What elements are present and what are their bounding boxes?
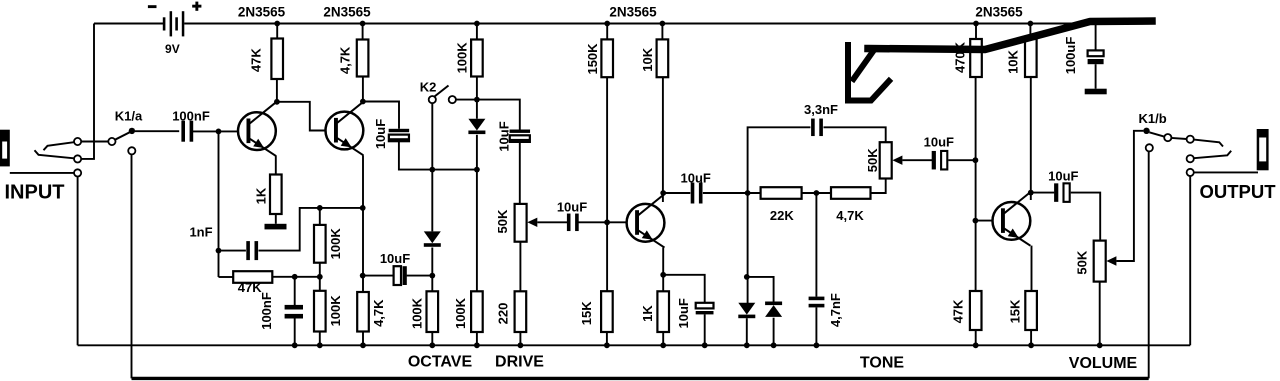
- node 4,7nF tap: [814, 190, 820, 196]
- capacitor C 4,7nF: [809, 297, 825, 308]
- label 9V: [165, 42, 180, 56]
- node octave node: [474, 97, 480, 103]
- capacitor C6 10uF: [691, 183, 703, 204]
- wire R17 to Q4 base node: [975, 77, 977, 221]
- node Q3 base junction: [604, 219, 610, 225]
- wire 4,7K to tone pot bottom: [871, 179, 886, 194]
- label C9 100nF: [259, 292, 274, 330]
- label P1 50K: [495, 209, 510, 233]
- wire 100nF top lead: [294, 277, 296, 305]
- transistor Q3 2N3565: [627, 194, 666, 248]
- wire input sleeve to contact: [10, 172, 74, 174]
- wire rail to R2: [362, 24, 364, 40]
- wire bypass rail: [132, 377, 1149, 380]
- svg-text:K1/a: K1/a: [115, 109, 143, 124]
- wire 3,3nF right to tone pot top: [824, 127, 886, 142]
- switch K1/a bypass throw contact: [128, 147, 135, 154]
- switch K2 arm: [435, 86, 449, 97]
- label 2N3565 Q2: [323, 5, 371, 20]
- wire R11 to Q3 base node: [606, 77, 608, 222]
- resistor R 4,7K tone: [831, 187, 871, 199]
- label C3 10uF: [380, 251, 410, 266]
- svg-text:10K: 10K: [1005, 49, 1020, 73]
- potentiometer P3 volume 50K: [1094, 241, 1106, 282]
- capacitor C5 10uF: [567, 214, 579, 232]
- wire rail to R12: [661, 24, 663, 40]
- label K2: [420, 80, 437, 95]
- transistor Q1 2N3565: [238, 102, 277, 156]
- svg-text:100nF: 100nF: [172, 108, 210, 123]
- label battery plus: [192, 2, 201, 11]
- switch K1/a throw contact: [108, 138, 115, 145]
- node tone input node: [745, 190, 751, 196]
- ground under R3: [265, 224, 287, 230]
- resistor R4 100K: [314, 225, 326, 263]
- diode D3: [738, 303, 755, 318]
- resistor R16 1K: [657, 291, 669, 332]
- scribble annotation mark: [848, 21, 1152, 101]
- label 1nF: [189, 224, 212, 239]
- label C4 10uF: [496, 121, 511, 151]
- resistor R17 470K: [970, 39, 982, 77]
- label R17 470K: [952, 41, 967, 73]
- wire output sleeve to ground rail: [1189, 176, 1191, 345]
- switch K1/b throw contact: [1164, 134, 1171, 141]
- node rail junction R10: [474, 21, 480, 27]
- label R11 150K: [585, 43, 600, 75]
- svg-text:3,3nF: 3,3nF: [804, 102, 838, 117]
- node Q2 collector: [360, 99, 366, 105]
- node rail junction R2: [360, 21, 366, 27]
- label 4,7K tone: [836, 208, 864, 223]
- node Q4 base junction: [973, 218, 979, 224]
- wire C6 left lead: [663, 192, 690, 194]
- wire 3,3nF branch up: [748, 127, 811, 193]
- ground under C11: [1085, 89, 1107, 95]
- node diode split: [744, 274, 750, 280]
- wire rail to R10: [476, 24, 478, 40]
- node C3 right junction: [429, 273, 435, 279]
- label P2 50K: [865, 148, 880, 172]
- wire rail to R1: [276, 24, 278, 39]
- resistor R18 10K: [1025, 39, 1037, 77]
- label 2N3565 Q4: [975, 5, 1023, 20]
- svg-text:10uF: 10uF: [681, 170, 711, 185]
- wire output ring contact arm: [1194, 151, 1231, 158]
- wire left drop from top rail to input ring contact: [81, 24, 94, 159]
- wire R3 to ground: [275, 214, 277, 224]
- wire top rail left segment (battery minus to left drop): [94, 23, 163, 25]
- label C10 10uF: [676, 298, 691, 328]
- wire K2 to D1 node: [456, 99, 477, 101]
- svg-text:15K: 15K: [579, 301, 594, 325]
- svg-text:10uF: 10uF: [1048, 169, 1078, 184]
- diode D4: [765, 302, 782, 317]
- svg-text:100K: 100K: [455, 42, 470, 74]
- wire R1 to collector node: [276, 79, 278, 102]
- svg-text:OCTAVE: OCTAVE: [408, 354, 473, 371]
- capacitor C9 100nF: [285, 305, 303, 319]
- node output sleeve contact: [1187, 169, 1194, 176]
- resistor R3 1K: [270, 175, 282, 215]
- wire C7 to Q4 base line: [948, 159, 975, 161]
- node Q3 collector C6 tap: [660, 190, 666, 196]
- label R12 10K: [640, 47, 655, 71]
- label R2 4,7K: [338, 46, 353, 74]
- label R4 100K: [328, 228, 343, 260]
- wire ground rail: [78, 344, 1191, 346]
- capacitor C8 10uF: [1054, 183, 1070, 202]
- capacitor C 3,3nF: [811, 119, 823, 137]
- wire R13 to ground rail: [975, 330, 977, 345]
- svg-text:2N3565: 2N3565: [323, 5, 371, 20]
- diode D1: [468, 119, 485, 134]
- wire P2 wiper arrow: [892, 156, 934, 165]
- wire P1 wiper arrow: [527, 218, 567, 227]
- wire P1 to R9: [519, 242, 521, 292]
- svg-text:150K: 150K: [585, 43, 600, 75]
- capacitor C4 10uF: [510, 130, 531, 142]
- wire Q3 emitter down: [662, 248, 664, 292]
- node 1nF tap: [216, 248, 222, 254]
- wire R8 to ground rail: [476, 332, 478, 345]
- label R8 100K: [453, 297, 468, 329]
- wire diode split to D4: [747, 277, 774, 302]
- svg-text:10uF: 10uF: [380, 251, 410, 266]
- label C11 100uF: [1063, 37, 1078, 75]
- svg-text:47K: 47K: [951, 299, 966, 323]
- svg-text:100K: 100K: [453, 297, 468, 329]
- label R10 100K: [455, 42, 470, 74]
- label K1/b: [1139, 111, 1167, 126]
- node C3 left junction: [360, 273, 366, 279]
- capacitor C 1nF: [246, 241, 258, 260]
- label P3 50K: [1075, 250, 1090, 274]
- node input ring contact: [74, 155, 81, 162]
- svg-text:10uF: 10uF: [924, 135, 954, 150]
- switch K1/b common: [1143, 128, 1149, 134]
- label 2N3565 Q3: [609, 5, 657, 20]
- wire K2a down to D2: [431, 103, 433, 231]
- label TONE: [860, 355, 904, 372]
- svg-text:1K: 1K: [253, 187, 268, 204]
- wire Q2 emitter down: [362, 155, 364, 292]
- wire 4,7nF branch: [815, 193, 817, 297]
- node rail junction R12: [660, 21, 666, 27]
- wire D2 to C3 node: [431, 248, 433, 276]
- switch K1/b arm: [1149, 132, 1164, 136]
- node input sleeve contact: [74, 169, 81, 176]
- wire top rail main segment (battery plus to 100uF): [184, 23, 1095, 25]
- node rail junction R17: [973, 21, 979, 27]
- node D2 line crossing: [429, 167, 435, 173]
- label R14 15K: [1008, 299, 1023, 323]
- wire D2 node to R7: [431, 276, 433, 292]
- svg-text:TONE: TONE: [860, 355, 904, 372]
- wire R2 to Q2 collector node: [362, 77, 364, 102]
- switch K1/b bypass throw contact: [1146, 144, 1153, 151]
- svg-text:DRIVE: DRIVE: [495, 354, 544, 371]
- node input tip contact: [74, 138, 81, 145]
- label R7 100K: [410, 297, 425, 329]
- resistor R12 10K: [657, 39, 669, 77]
- wire R4 to R5: [319, 263, 321, 291]
- wire emitter junction to C10: [663, 275, 705, 303]
- label C8 10uF: [1048, 169, 1078, 184]
- wire Q1 base down to feedback: [218, 131, 220, 277]
- svg-text:50K: 50K: [1075, 250, 1090, 274]
- svg-text:OUTPUT: OUTPUT: [1199, 181, 1276, 202]
- label C1 100nF: [172, 108, 210, 123]
- resistor R8 100K: [471, 291, 483, 332]
- svg-text:2N3565: 2N3565: [975, 5, 1023, 20]
- wire R9 to ground rail: [519, 332, 521, 345]
- label C6 10uF: [681, 170, 711, 185]
- svg-text:K2: K2: [420, 80, 437, 95]
- svg-text:15K: 15K: [1008, 299, 1023, 323]
- wire input sleeve down to ground rail: [77, 177, 79, 346]
- wire rail to R11: [606, 24, 608, 40]
- switch K1/a common: [129, 128, 135, 134]
- svg-text:100K: 100K: [410, 297, 425, 329]
- wire feedback 47K left lead: [219, 276, 234, 278]
- switch K2 contact b: [449, 96, 456, 103]
- label battery minus: [148, 5, 157, 8]
- svg-text:10uF: 10uF: [373, 119, 388, 149]
- label R9 220: [495, 303, 510, 325]
- svg-text:K1/b: K1/b: [1139, 111, 1167, 126]
- wire K1/b bypass riser: [1148, 151, 1150, 378]
- label R1 47K: [248, 48, 263, 72]
- svg-text:4,7K: 4,7K: [836, 208, 864, 223]
- svg-text:4,7nF: 4,7nF: [828, 293, 843, 327]
- node 100nF tap: [292, 274, 298, 280]
- node R4 top junction: [317, 205, 323, 211]
- wire K1/a bypass drop: [131, 154, 133, 378]
- svg-text:4,7K: 4,7K: [371, 299, 386, 327]
- wire rail to R18: [1029, 24, 1031, 40]
- wire K1/b throw to jack tip: [1171, 138, 1186, 139]
- svg-text:9V: 9V: [165, 42, 180, 56]
- diode D2: [424, 231, 441, 246]
- svg-text:2N3565: 2N3565: [609, 5, 657, 20]
- node rail junction R1: [274, 21, 280, 27]
- wire Q4 emitter down: [1031, 246, 1033, 291]
- input jack J1: [0, 130, 10, 167]
- wire C4 to drive pot: [519, 143, 521, 204]
- wire input ring contact arm: [35, 150, 75, 158]
- node rail junction R18: [1028, 21, 1034, 27]
- resistor R2 4,7K: [357, 40, 369, 77]
- wire input tip contact arm: [44, 142, 75, 150]
- capacitor C1 100nF: [181, 121, 193, 142]
- svg-text:10uF: 10uF: [676, 298, 691, 328]
- potentiometer P2 tone 50K: [880, 142, 892, 178]
- label C2 10uF: [373, 119, 388, 149]
- wire D3 to ground rail: [746, 318, 748, 345]
- node Q3 emitter junction: [660, 272, 666, 278]
- wire 47K right to divider: [272, 276, 320, 278]
- wire P3 wiper to K1/b: [1106, 131, 1143, 266]
- label 22K: [770, 208, 794, 223]
- resistor R feedback 47K: [233, 271, 272, 283]
- resistor R5 100K: [314, 291, 326, 332]
- capacitor C7 10uF: [932, 151, 948, 170]
- wire 100nF to ground rail: [294, 318, 296, 346]
- wire R5 to ground rail: [319, 332, 321, 346]
- wire C3 leads: [363, 275, 433, 277]
- label C7 10uF: [924, 135, 954, 150]
- resistor R6 4,7K: [357, 292, 369, 332]
- battery BT1 9V: [163, 11, 185, 36]
- wire 1nF left lead: [219, 250, 246, 252]
- capacitor C11 100uF: [1088, 50, 1104, 64]
- transistor Q2 2N3565: [326, 101, 365, 155]
- svg-text:2N3565: 2N3565: [238, 5, 286, 20]
- wire D1 line to R8: [476, 170, 478, 292]
- svg-text:22K: 22K: [770, 208, 794, 223]
- label feedback 47K: [238, 280, 262, 295]
- wire 22K to 4,7K: [802, 192, 831, 194]
- node Q1 base junction: [216, 129, 222, 135]
- wire R6 to ground rail: [362, 332, 364, 346]
- svg-text:100K: 100K: [328, 228, 343, 260]
- node ground junctions: [292, 342, 1103, 348]
- svg-text:220: 220: [495, 303, 510, 325]
- wire C1 to Q1 base: [193, 130, 238, 132]
- wire D1 to octave line: [476, 135, 478, 170]
- wire 4,7nF to ground rail: [815, 307, 817, 345]
- node R4 R5 junction: [317, 274, 323, 280]
- svg-text:10uF: 10uF: [496, 121, 511, 151]
- wire C8 to volume pot: [1071, 193, 1101, 241]
- label K1/a: [115, 109, 143, 124]
- wire C11 to ground: [1095, 64, 1097, 89]
- wire R14 to ground rail: [1030, 330, 1032, 345]
- wire R12 to Q3 collector: [662, 77, 664, 202]
- wire C6 to tone network: [703, 192, 761, 194]
- node D1 line end: [474, 167, 480, 173]
- wire C5 to Q3 base: [579, 221, 627, 223]
- label OUTPUT: [1199, 181, 1276, 202]
- node C7 junction: [973, 157, 979, 163]
- label R18 10K: [1005, 49, 1020, 73]
- svg-text:100K: 100K: [328, 295, 343, 327]
- svg-text:50K: 50K: [865, 148, 880, 172]
- resistor R1 47K: [271, 39, 283, 80]
- wire R18 to Q4 collector: [1030, 77, 1032, 200]
- resistor R15 15K: [601, 291, 613, 332]
- wire Q3 base node to R15: [606, 222, 608, 291]
- label R5 100K: [328, 295, 343, 327]
- label VOLUME: [1069, 355, 1138, 372]
- wire Q4 base node to R13: [975, 221, 977, 291]
- wire 1nF right to emitter feedback riser: [259, 208, 363, 251]
- wire diode branch down: [747, 193, 749, 304]
- wire Q1 emitter to R3: [275, 155, 277, 174]
- label R15 15K: [579, 301, 594, 325]
- wire C8 left lead: [1031, 192, 1055, 194]
- resistor R11 150K: [601, 39, 613, 77]
- resistor R9 220: [515, 291, 527, 332]
- label 3,3nF: [804, 102, 838, 117]
- potentiometer P1 drive 50K: [515, 204, 527, 242]
- label R6 4,7K: [371, 299, 386, 327]
- wire R7 to ground rail: [431, 332, 433, 345]
- svg-text:VOLUME: VOLUME: [1069, 355, 1138, 372]
- wire C2 bottom to octave line: [399, 142, 477, 170]
- transistor Q4 2N3565: [993, 192, 1032, 246]
- wire D4 to ground rail: [773, 318, 775, 346]
- resistor R7 100K: [427, 291, 439, 332]
- svg-text:10K: 10K: [640, 47, 655, 71]
- label R16 1K: [640, 305, 655, 322]
- resistor R 22K: [761, 187, 802, 199]
- label OCTAVE: [408, 354, 473, 371]
- svg-text:4,7K: 4,7K: [338, 46, 353, 74]
- wire input tip contact to switch throw: [81, 141, 108, 143]
- svg-text:100nF: 100nF: [259, 292, 274, 330]
- wire C10 to ground rail: [704, 314, 706, 345]
- svg-text:10uF: 10uF: [557, 200, 587, 215]
- node output tip contact: [1187, 136, 1194, 143]
- resistor R10 100K: [471, 40, 483, 77]
- node Q4 collector C8 tap: [1028, 190, 1034, 196]
- wire rail to C11: [1095, 24, 1097, 51]
- capacitor C3 10uF: [394, 266, 407, 285]
- node Q2 emitter R4 junction: [360, 205, 366, 211]
- switch K2 contact a: [429, 96, 436, 103]
- svg-text:INPUT: INPUT: [5, 182, 65, 204]
- svg-text:50K: 50K: [495, 209, 510, 233]
- wire R4 top lead: [319, 208, 321, 225]
- label INPUT: [5, 182, 65, 204]
- label R3 1K: [253, 187, 268, 204]
- label C5 10uF: [557, 200, 587, 215]
- label 4,7nF: [828, 293, 843, 327]
- node Q1 collector: [274, 99, 280, 105]
- svg-text:47K: 47K: [248, 48, 263, 72]
- wire octave node to C4: [477, 100, 520, 130]
- wire R10 to octave node: [476, 77, 478, 119]
- svg-text:100uF: 100uF: [1063, 37, 1078, 75]
- wire P3 to ground rail: [1099, 282, 1101, 346]
- svg-text:1K: 1K: [640, 305, 655, 322]
- output jack J2: [1257, 129, 1269, 170]
- resistor R14 15K: [1025, 291, 1037, 330]
- wire output tip contact arm: [1194, 140, 1223, 147]
- capacitor C10 10uF: [696, 303, 714, 315]
- wire K1/a common to C1: [135, 130, 179, 132]
- resistor R13 47K: [970, 291, 982, 330]
- label DRIVE: [495, 354, 544, 371]
- node rail junction R11: [604, 21, 610, 27]
- switch K1/a arm: [115, 132, 130, 140]
- wire R16 to ground rail: [662, 332, 664, 345]
- wire Q2 collector to C2: [363, 102, 399, 129]
- wire output sleeve to jack: [1194, 171, 1258, 173]
- svg-text:1nF: 1nF: [189, 224, 212, 239]
- label R13 47K: [951, 299, 966, 323]
- wire R15 to ground rail: [606, 332, 608, 345]
- capacitor C2 10uF: [389, 129, 410, 141]
- wire Q4 base lead: [975, 220, 993, 222]
- wire Q1 collector to Q2 base: [277, 102, 326, 131]
- node output ring contact: [1187, 155, 1194, 162]
- label 2N3565 Q1: [238, 5, 286, 20]
- wire rail to R17: [975, 24, 977, 40]
